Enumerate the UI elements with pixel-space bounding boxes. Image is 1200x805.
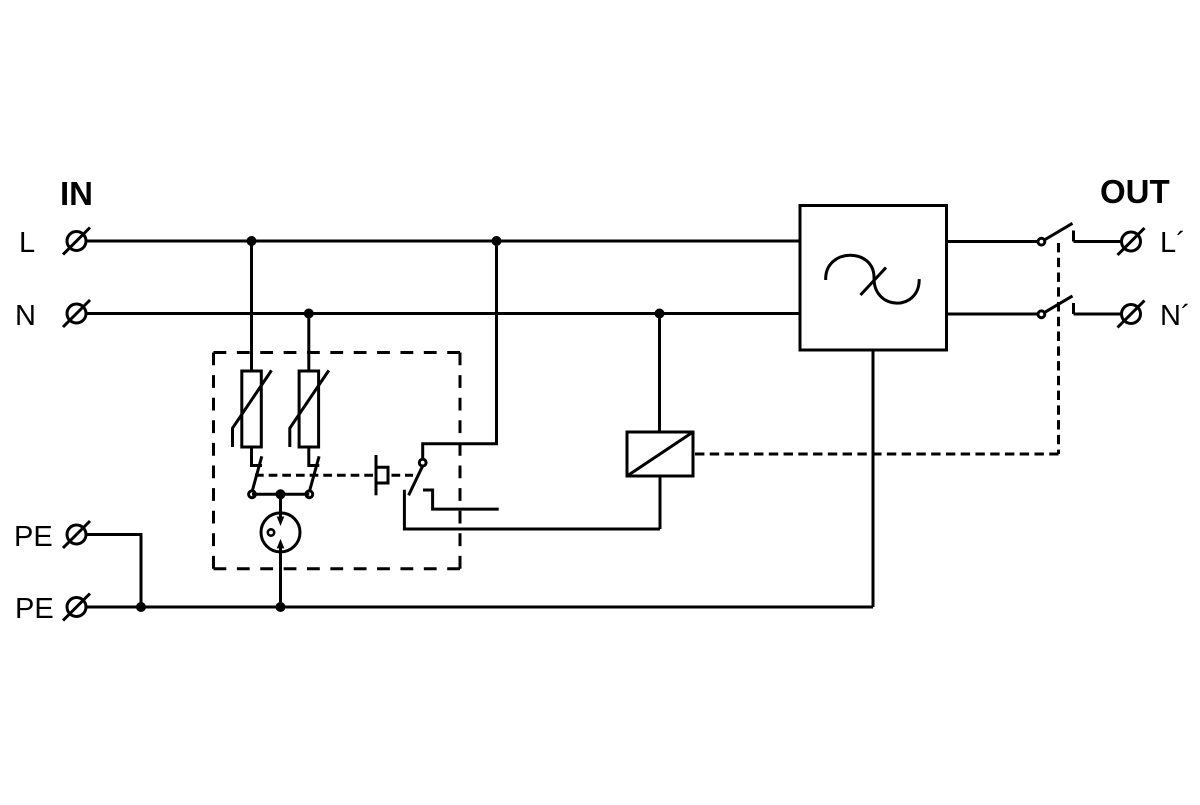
svg-text:IN: IN (60, 175, 93, 212)
terminal N' out (1118, 301, 1145, 328)
terminal N in (63, 300, 90, 327)
svg-text:N: N (15, 300, 36, 332)
node L junction varistor (247, 236, 257, 246)
svg-text:PE: PE (14, 521, 53, 553)
varistor RV2 diagonal (290, 370, 329, 447)
manual actuator symbol (376, 455, 388, 495)
varistor RV1 diagonal (233, 370, 272, 447)
indicator arrow up (277, 539, 285, 549)
switch N' pivot (1038, 311, 1045, 318)
microswitch blade (409, 466, 423, 496)
switch L' blade (1044, 223, 1072, 240)
indicator arrow down (277, 517, 285, 527)
switch N' fixed contact (1072, 303, 1075, 314)
terminal PE lower (63, 594, 90, 621)
label PE (upper) (14, 521, 53, 553)
label L (19, 227, 35, 259)
indicator inner dot (268, 529, 274, 535)
svg-text:PE: PE (15, 593, 54, 625)
terminal PE upper (63, 521, 90, 548)
label L' (1160, 227, 1186, 259)
relay linkage dashed horizontal (695, 453, 1059, 456)
microswitch pivot (419, 459, 426, 466)
wire L' to terminal (1074, 240, 1122, 243)
wire indicator top lead (279, 494, 282, 517)
wire filter to L' switch (947, 240, 1039, 243)
indicator lamp circle (261, 513, 300, 552)
switch L' fixed contact (1072, 231, 1075, 242)
filter unit U1 box (800, 206, 947, 351)
wire PE upper to junction (87, 535, 141, 608)
thermal disconnector blade 2 (310, 456, 320, 491)
wire L line (87, 240, 800, 243)
wire indicator bottom lead (279, 548, 282, 607)
varistor RV1 body (242, 371, 261, 447)
wire PE line (87, 606, 873, 609)
node PE junction 1 (136, 602, 146, 612)
label N (15, 300, 36, 332)
varistor RV1 bottom lead with contact hook (252, 447, 263, 466)
varistor RV2 body (299, 371, 319, 447)
enclosure dashed box (214, 353, 461, 569)
wire N line (87, 312, 800, 315)
terminal L in (63, 228, 90, 255)
svg-text:N´: N´ (1160, 300, 1191, 332)
relay coil K1 (627, 432, 693, 476)
label IN (60, 175, 93, 212)
filter sine symbol (826, 255, 920, 303)
varistor RV2 bottom lead with contact hook (309, 447, 320, 466)
wire between disconnector pivots (252, 493, 309, 496)
svg-text:L´: L´ (1160, 227, 1186, 259)
wire relay coil to NC contact (659, 476, 662, 529)
wire filter to PE (872, 350, 875, 607)
label N' (1160, 300, 1191, 332)
terminal L' out (1118, 228, 1145, 255)
svg-text:L: L (19, 227, 35, 259)
mechanical linkage dashes right (392, 474, 414, 477)
wire N' to terminal (1074, 313, 1122, 316)
node PE junction 2 (276, 602, 286, 612)
switch L' pivot (1038, 238, 1045, 245)
thermal disconnector pivot 1 (249, 491, 256, 498)
label PE (lower) (15, 593, 54, 625)
microswitch NC contact (404, 490, 660, 529)
microswitch NO contact stub (423, 490, 499, 509)
wire filter to N' switch (947, 313, 1039, 316)
thermal disconnector pivot 2 (306, 491, 313, 498)
mechanical linkage dashes left (255, 474, 373, 477)
relay linkage dashed vertical (1057, 243, 1060, 454)
wire N to varistor 2 (307, 314, 310, 372)
node disconnector junction (276, 489, 286, 499)
node N junction relay (655, 309, 665, 319)
wire L to varistor 1 (250, 241, 253, 371)
wire L drop to microswitch (423, 241, 497, 459)
svg-text:OUT: OUT (1100, 173, 1170, 210)
thermal disconnector blade 1 (252, 456, 262, 491)
node L junction switch feed (492, 236, 502, 246)
wire N to relay coil (658, 314, 661, 433)
label OUT (1100, 173, 1170, 210)
switch N' blade (1044, 296, 1072, 313)
node N junction varistor (304, 309, 314, 319)
